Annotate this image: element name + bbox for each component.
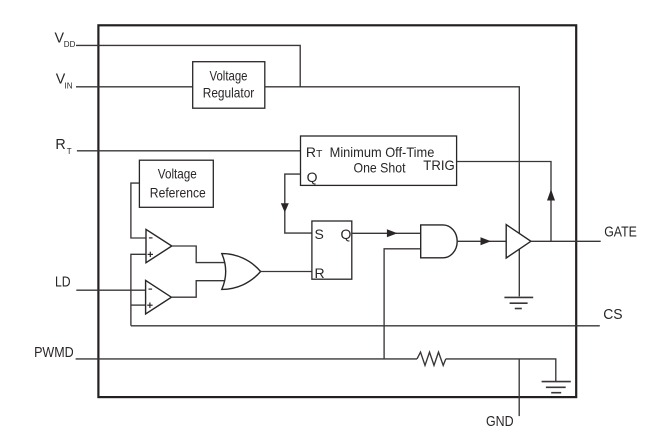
- OR gate U6: [222, 254, 261, 290]
- driver buffer U9: [506, 225, 531, 258]
- wire comparator 1 output to OR gate: [172, 246, 227, 263]
- wire comparator 2 plus input stub: [131, 304, 146, 306]
- wire OR output to latch R input: [261, 271, 312, 273]
- pin GATE wire: [531, 240, 601, 242]
- svg-text:T: T: [67, 147, 72, 156]
- IC outer boundary box: [98, 25, 576, 397]
- wire PWMD pin to resistor: [76, 358, 417, 360]
- svg-text:GND: GND: [486, 414, 514, 430]
- SR latch U7: [312, 221, 352, 281]
- voltage reference U3: [139, 160, 213, 207]
- wire voltage reference to comparator 1 inverting input: [131, 183, 146, 238]
- wire TRIG feedback from GATE node: [457, 162, 551, 242]
- wire resistor to internal ground: [446, 359, 556, 382]
- wire comparator 2 output to OR gate: [171, 281, 227, 298]
- svg-text:Minimum Off-Time: Minimum Off-Time: [330, 144, 435, 160]
- svg-text:DD: DD: [64, 40, 76, 49]
- svg-text:S: S: [315, 226, 324, 242]
- arrowhead into AND gate: [387, 229, 398, 237]
- wire PWMD to AND gate lower input: [384, 249, 421, 359]
- wire latch Q output to AND gate: [352, 232, 421, 234]
- wire VDD pin to regulator output node: [76, 45, 300, 86]
- svg-text:LD: LD: [55, 275, 71, 291]
- svg-text:R: R: [55, 137, 65, 153]
- comparator U4: [146, 229, 172, 262]
- wire CS feedback to comparator plus inputs: [131, 254, 146, 325]
- ground symbol at right: [542, 382, 571, 393]
- wire GND pin: [518, 359, 520, 416]
- svg-text:Reference: Reference: [150, 184, 206, 200]
- wire VIN pin to voltage regulator input: [76, 86, 193, 88]
- svg-text:TRIG: TRIG: [423, 157, 454, 173]
- pin VIN label: [56, 72, 73, 91]
- one-shot U2 minimum off-time: [301, 136, 457, 185]
- svg-text:Regulator: Regulator: [203, 85, 255, 101]
- arrowhead into driver: [481, 237, 492, 245]
- svg-text:GATE: GATE: [604, 224, 637, 240]
- svg-text:Voltage: Voltage: [210, 67, 248, 83]
- wire RT pin to one-shot: [77, 150, 301, 152]
- wire one-shot Q output to latch S input: [285, 174, 312, 233]
- wire regulator output to driver supply rail: [265, 87, 520, 297]
- comparator U5: [146, 280, 172, 314]
- resistor R1: [417, 352, 446, 365]
- arrowhead down into S: [281, 203, 289, 212]
- pin VDD label: [55, 30, 76, 49]
- wire AND output to driver: [457, 240, 506, 242]
- svg-text:Q: Q: [307, 169, 318, 185]
- arrowhead up toward TRIG: [547, 189, 555, 200]
- svg-text:IN: IN: [65, 81, 73, 90]
- ground symbol under driver: [504, 297, 533, 308]
- svg-text:Voltage: Voltage: [158, 165, 197, 181]
- AND gate U8: [421, 225, 457, 258]
- svg-text:R: R: [315, 265, 325, 281]
- wire CS line to CS pin: [131, 325, 600, 327]
- svg-text:One Shot: One Shot: [354, 160, 406, 176]
- pin RT label: [55, 137, 71, 156]
- wire LD pin to comparator 2 inverting input: [76, 289, 145, 291]
- svg-text:PWMD: PWMD: [34, 345, 74, 361]
- svg-text:CS: CS: [603, 307, 622, 323]
- voltage regulator U1: [193, 62, 265, 108]
- svg-text:Q: Q: [341, 226, 352, 242]
